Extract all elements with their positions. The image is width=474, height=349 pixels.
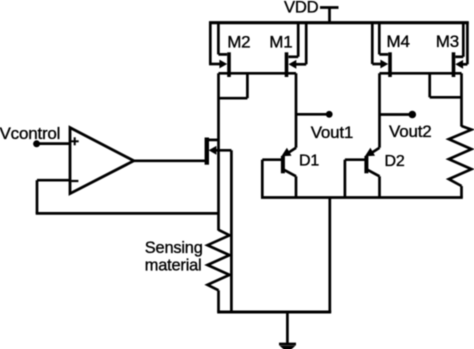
svg-text:M4: M4 (387, 32, 410, 51)
svg-text:M2: M2 (227, 32, 250, 51)
svg-text:Vout1: Vout1 (311, 123, 354, 142)
svg-text:D2: D2 (385, 153, 405, 170)
svg-text:Vcontrol: Vcontrol (0, 124, 60, 143)
svg-text:Vout2: Vout2 (389, 122, 432, 141)
svg-text:D1: D1 (299, 152, 319, 169)
svg-text:Sensing: Sensing (145, 239, 203, 257)
svg-text:M1: M1 (269, 32, 292, 51)
svg-text:material: material (145, 256, 202, 274)
svg-text:VDD: VDD (284, 0, 319, 17)
svg-text:M3: M3 (436, 32, 459, 51)
